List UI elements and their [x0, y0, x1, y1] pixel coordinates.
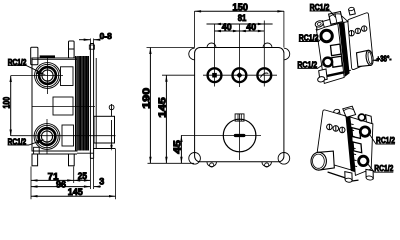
port P2 centerlines — [11, 135, 116, 137]
dim 81 — [207, 12, 273, 25]
body top edge extension left — [147, 47, 195, 49]
top-left port stub — [314, 20, 324, 30]
dim 100 vertical — [2, 76, 12, 137]
dim 45 vertical — [172, 136, 183, 164]
port C1 — [208, 24, 222, 87]
dim 145 vertical — [157, 75, 168, 163]
top right lugs — [358, 114, 365, 121]
svg-text:RC1/2: RC1/2 — [374, 164, 394, 173]
svg-text:40: 40 — [246, 21, 256, 32]
svg-text:145: 145 — [157, 97, 168, 118]
port ring upper — [321, 30, 332, 41]
dim 145 line — [31, 186, 116, 197]
inner rect upper (port boss) — [61, 67, 74, 86]
knob cylinder — [357, 50, 371, 66]
dim 71 / 25 line — [31, 170, 90, 181]
port P1 circles — [35, 63, 61, 89]
svg-text:0-8: 0-8 — [100, 32, 113, 41]
dark gap band — [339, 22, 350, 77]
svg-text:RC1/2: RC1/2 — [297, 60, 317, 69]
box top face — [316, 16, 348, 29]
top lug right — [69, 41, 75, 58]
bottom edge — [328, 172, 345, 178]
inner rect middle (cartridge) — [53, 97, 73, 115]
box body top lugs — [333, 106, 355, 119]
dim 150 — [195, 2, 284, 47]
thin wall plate — [89, 44, 96, 159]
label RC1/2 lower + leader — [8, 137, 45, 146]
bottom thick edge — [327, 72, 343, 76]
ear bottom-left — [189, 153, 201, 165]
box front face — [316, 24, 344, 84]
foot right — [69, 154, 75, 166]
big circle (control) — [181, 114, 261, 160]
black seal bar on top — [40, 55, 55, 57]
screws on plate — [349, 26, 367, 36]
dim 3 — [94, 176, 105, 188]
band hatch ticks — [351, 124, 357, 167]
top-right tiny lug — [349, 8, 356, 15]
port ring lower — [323, 58, 332, 67]
top bump right — [263, 43, 272, 48]
body outline — [32, 58, 77, 154]
label RC1/2 upper + leader — [8, 58, 46, 75]
dim 40 40 — [215, 21, 265, 32]
dim 96 line — [31, 179, 90, 190]
bottom dim ext lines — [31, 149, 116, 199]
hatched mounting wall — [76, 56, 89, 151]
body bottom ext line — [148, 162, 195, 164]
svg-text:190: 190 — [141, 87, 152, 109]
port C3 — [257, 21, 271, 87]
box right face — [350, 117, 373, 175]
foot left — [32, 147, 39, 166]
plate quad — [348, 13, 373, 70]
svg-text:25: 25 — [78, 170, 87, 181]
square port upper — [331, 44, 342, 56]
top lug — [329, 12, 343, 25]
port ring lower — [359, 156, 368, 165]
dim 0-8 — [79, 32, 112, 44]
dim 190 — [141, 48, 152, 164]
ear top-right — [284, 48, 290, 60]
svg-text:RC1/2: RC1/2 — [299, 33, 319, 42]
square ports on face — [352, 128, 361, 139]
svg-text:3: 3 — [99, 176, 104, 187]
port ring upper — [360, 127, 369, 136]
body mid horizontal line — [32, 106, 95, 108]
port P2 circles — [34, 124, 60, 150]
svg-text:145: 145 — [68, 186, 83, 197]
knob cylinder — [319, 151, 335, 170]
svg-text:96: 96 — [56, 179, 66, 190]
inner rect lower — [62, 125, 74, 146]
svg-text:81: 81 — [238, 12, 247, 23]
port P1 centerlines — [11, 75, 63, 77]
top lug left — [31, 47, 38, 65]
ear bottom-right — [278, 153, 290, 165]
top bump left — [207, 43, 216, 48]
dark gap band — [346, 116, 356, 172]
svg-text:40: 40 — [222, 21, 232, 32]
plate quad — [316, 110, 351, 170]
svg-text:RC1/2: RC1/2 — [376, 136, 396, 145]
body plate — [195, 48, 284, 162]
svg-text:100: 100 — [2, 97, 12, 109]
ear top-left — [189, 48, 195, 60]
svg-text:45: 45 — [172, 140, 183, 154]
bottom stub — [317, 69, 327, 83]
foot bump left — [207, 162, 217, 167]
port C2 — [233, 24, 247, 88]
svg-text:RC1/2: RC1/2 — [310, 3, 330, 12]
screws on plate — [327, 124, 345, 133]
square port lower — [332, 56, 342, 67]
ports row centerline — [203, 74, 277, 76]
svg-text:+38°-: +38°- — [377, 54, 392, 63]
adjuster knob right — [77, 104, 116, 153]
foot bump right — [262, 162, 272, 167]
bottom feet — [345, 169, 374, 182]
